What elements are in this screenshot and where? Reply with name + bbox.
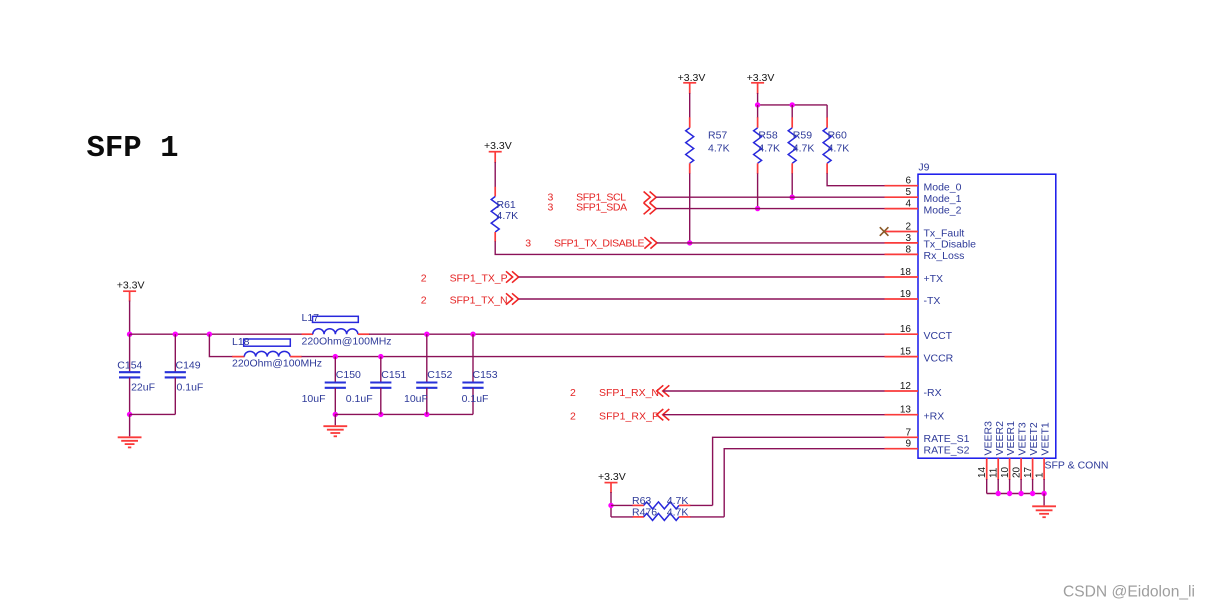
wire R59 to SCL bbox=[791, 173, 793, 197]
junction at R59 top bbox=[790, 102, 795, 107]
svg-text:1: 1 bbox=[1034, 472, 1045, 478]
svg-text:L17: L17 bbox=[302, 312, 320, 324]
net label SFP1_RX_N bbox=[570, 387, 659, 399]
resistor R61 bbox=[491, 187, 518, 242]
pin 5 Mode_1 bbox=[885, 187, 962, 205]
ground G3 under connector bbox=[1032, 494, 1056, 518]
net label SFP1_SDA bbox=[548, 202, 628, 214]
svg-text:Mode_1: Mode_1 bbox=[924, 193, 962, 205]
pin 13 +RX bbox=[885, 405, 945, 423]
svg-text:3: 3 bbox=[905, 233, 911, 244]
pin 17 VEET2 (bottom) bbox=[1023, 422, 1040, 493]
pin 18 +TX bbox=[885, 267, 944, 285]
junction bottom bus 4 bbox=[1030, 491, 1035, 496]
svg-text:R60: R60 bbox=[828, 130, 847, 142]
capacitor C150 bbox=[302, 357, 361, 415]
svg-text:C149: C149 bbox=[176, 360, 201, 372]
pin 9 RATE_S2 bbox=[885, 439, 970, 457]
svg-text:6: 6 bbox=[905, 176, 911, 187]
pin 10 VEER1 (bottom) bbox=[1000, 421, 1017, 494]
svg-text:Mode_0: Mode_0 bbox=[924, 182, 962, 194]
wire R61 to pin 8 Rx_Loss bbox=[495, 241, 884, 254]
wire bottom pin bus bbox=[987, 493, 1044, 495]
port arrow SFP1_TX_DISABLE bbox=[644, 237, 657, 248]
svg-text:10uF: 10uF bbox=[404, 393, 428, 405]
net label SFP1_RX_P bbox=[570, 411, 659, 423]
svg-text:0.1uF: 0.1uF bbox=[177, 382, 204, 394]
svg-text:15: 15 bbox=[900, 347, 912, 358]
svg-text:+TX: +TX bbox=[924, 273, 944, 285]
svg-text:3: 3 bbox=[548, 202, 554, 214]
wire P1 to R57 bbox=[689, 93, 691, 118]
svg-text:C150: C150 bbox=[336, 369, 361, 381]
svg-text:VEER2: VEER2 bbox=[994, 421, 1006, 456]
capacitor C152 bbox=[404, 334, 453, 414]
wire to R63 bbox=[611, 504, 633, 506]
svg-text:11: 11 bbox=[988, 467, 999, 478]
svg-text:C151: C151 bbox=[381, 369, 406, 381]
svg-text:22uF: 22uF bbox=[131, 382, 155, 394]
svg-text:20: 20 bbox=[1011, 466, 1022, 478]
net label SFP1_SCL bbox=[548, 191, 627, 203]
resistor R57 bbox=[686, 117, 730, 174]
wire TX_P bbox=[519, 276, 885, 278]
port arrow SFP1_RX_N (left) bbox=[657, 385, 670, 396]
junction bottom bus 2 bbox=[1007, 491, 1012, 496]
wire bus top rail to R60 bbox=[758, 104, 828, 106]
svg-text:10uF: 10uF bbox=[302, 393, 326, 405]
junction C152 top bbox=[424, 332, 429, 337]
svg-text:3: 3 bbox=[525, 237, 531, 249]
svg-text:4.7K: 4.7K bbox=[828, 143, 850, 155]
svg-text:VEET3: VEET3 bbox=[1017, 422, 1029, 455]
svg-text:+3.3V: +3.3V bbox=[484, 140, 512, 152]
power +3.3V P5 (left rail) bbox=[117, 280, 145, 302]
svg-text:4.7K: 4.7K bbox=[708, 143, 730, 155]
ground G2 under C150 bbox=[323, 414, 347, 436]
svg-text:9: 9 bbox=[905, 439, 911, 450]
svg-text:18: 18 bbox=[900, 267, 912, 278]
svg-text:L18: L18 bbox=[232, 336, 250, 348]
svg-text:RATE_S1: RATE_S1 bbox=[924, 433, 970, 445]
resistor R59 bbox=[788, 117, 814, 174]
svg-text:17: 17 bbox=[1023, 466, 1034, 478]
junction C152 bottom bbox=[424, 412, 429, 417]
svg-text:16: 16 bbox=[900, 324, 912, 335]
junction at R58 top bbox=[755, 102, 760, 107]
junction R57/Tx_Disable bbox=[687, 240, 692, 245]
svg-text:220Ohm@100MHz: 220Ohm@100MHz bbox=[302, 336, 392, 348]
junction C153 top bbox=[470, 332, 475, 337]
svg-text:C152: C152 bbox=[427, 369, 452, 381]
pin 3 Tx_Disable bbox=[885, 233, 977, 251]
capacitor C151 bbox=[346, 357, 407, 415]
svg-text:14: 14 bbox=[977, 466, 988, 478]
pin 6 Mode_0 bbox=[885, 176, 962, 194]
svg-text:8: 8 bbox=[905, 244, 911, 255]
pin 14 VEER3 (bottom) bbox=[977, 421, 994, 494]
capacitor C149 bbox=[165, 334, 204, 414]
wire L18 branch down bbox=[209, 334, 232, 356]
capacitor C153 bbox=[462, 334, 498, 414]
wire P5 down to rail bbox=[129, 301, 131, 335]
power +3.3V P2 (above R58/R59/R60) bbox=[747, 72, 775, 94]
svg-text:2: 2 bbox=[905, 222, 911, 233]
svg-text:0.1uF: 0.1uF bbox=[346, 393, 373, 405]
pin 16 VCCT bbox=[885, 324, 953, 342]
wire R59 column upper bbox=[791, 105, 793, 118]
junction bottom bus 5 bbox=[1041, 491, 1046, 496]
pin 2 Tx_Fault with no-connect X bbox=[880, 222, 965, 240]
svg-text:R57: R57 bbox=[708, 130, 727, 142]
wire TX_N bbox=[519, 298, 885, 300]
junction L18 branch bbox=[207, 332, 212, 337]
wire VCCT rail left segment bbox=[130, 333, 303, 335]
svg-text:VEET1: VEET1 bbox=[1040, 422, 1052, 455]
svg-text:0.1uF: 0.1uF bbox=[462, 393, 489, 405]
svg-text:2: 2 bbox=[570, 411, 576, 423]
svg-text:R59: R59 bbox=[793, 130, 812, 142]
capacitor C154 bbox=[117, 334, 155, 414]
junction bottom bus 1 bbox=[996, 491, 1001, 496]
junction P4/R63 bbox=[608, 503, 613, 508]
svg-text:VCCR: VCCR bbox=[924, 352, 954, 364]
net label SFP1_TX_DISABLE bbox=[525, 237, 644, 249]
svg-text:R63: R63 bbox=[632, 495, 651, 507]
svg-text:19: 19 bbox=[900, 289, 912, 300]
resistor R58 bbox=[754, 117, 780, 174]
svg-text:2: 2 bbox=[570, 387, 576, 399]
svg-text:4.7K: 4.7K bbox=[793, 143, 815, 155]
svg-text:2: 2 bbox=[421, 273, 427, 285]
junction R58/SDA bbox=[755, 206, 760, 211]
pin 4 Mode_2 bbox=[885, 199, 962, 217]
wire bottom rail C150-C153 bbox=[335, 413, 473, 415]
power +3.3V P4 (rate resistors) bbox=[598, 471, 626, 493]
svg-text:4: 4 bbox=[905, 199, 911, 210]
pin 12 -RX bbox=[885, 381, 942, 399]
svg-text:+3.3V: +3.3V bbox=[598, 471, 626, 483]
wire R60 column upper bbox=[826, 105, 828, 118]
wire C154-C149 bottom bbox=[130, 413, 176, 415]
svg-text:4.7K: 4.7K bbox=[667, 495, 689, 507]
connector J9 box bbox=[918, 162, 1056, 459]
wire R60 to pin 6 bbox=[827, 173, 884, 185]
svg-text:RATE_S2: RATE_S2 bbox=[924, 445, 970, 457]
svg-text:7: 7 bbox=[905, 427, 911, 438]
pin 15 VCCR bbox=[885, 347, 954, 365]
svg-text:4.7K: 4.7K bbox=[667, 507, 689, 519]
wire SCL bbox=[656, 196, 884, 198]
svg-text:SFP1_TX_N: SFP1_TX_N bbox=[450, 295, 508, 307]
svg-text:C154: C154 bbox=[117, 360, 142, 372]
wire R58 column upper bbox=[757, 105, 759, 118]
svg-text:4.7K: 4.7K bbox=[758, 143, 780, 155]
wire R58 to SDA bbox=[757, 173, 759, 208]
svg-text:SFP1_SDA: SFP1_SDA bbox=[576, 202, 627, 214]
net label SFP1_TX_P bbox=[421, 273, 508, 285]
power +3.3V P1 (above R57) bbox=[678, 72, 706, 94]
svg-text:CSDN @Eidolon_li: CSDN @Eidolon_li bbox=[1063, 584, 1195, 601]
svg-text:SFP1_RX_N: SFP1_RX_N bbox=[599, 387, 659, 399]
power +3.3V P3 (above R61) bbox=[484, 140, 512, 163]
wire to R476 bbox=[611, 516, 633, 518]
svg-text:Tx_Fault: Tx_Fault bbox=[924, 227, 965, 239]
resistor R63 bbox=[632, 495, 691, 509]
pin 8 Rx_Loss bbox=[885, 244, 965, 262]
svg-text:SFP & CONN: SFP & CONN bbox=[1045, 459, 1109, 471]
svg-text:-RX: -RX bbox=[924, 387, 942, 399]
wire R63 to riser bbox=[690, 504, 712, 506]
wire RX_P bbox=[663, 414, 885, 416]
junction bottom bus 3 bbox=[1018, 491, 1023, 496]
svg-text:220Ohm@100MHz: 220Ohm@100MHz bbox=[232, 357, 322, 369]
svg-text:Rx_Loss: Rx_Loss bbox=[924, 250, 965, 262]
port arrow SFP1_TX_P bbox=[506, 271, 519, 282]
port arrow SFP1_TX_N bbox=[506, 293, 519, 304]
ground G1 under C154 bbox=[118, 414, 142, 447]
net label SFP1_TX_N bbox=[421, 295, 508, 307]
svg-text:SFP1_TX_DISABLE: SFP1_TX_DISABLE bbox=[554, 237, 645, 249]
pin 1 VEET1 (bottom) bbox=[1034, 422, 1051, 493]
svg-text:2: 2 bbox=[421, 295, 427, 307]
svg-text:VEET2: VEET2 bbox=[1028, 422, 1040, 455]
junction R59/SCL bbox=[790, 195, 795, 200]
junction C149 top bbox=[173, 332, 178, 337]
svg-text:5: 5 bbox=[905, 187, 911, 198]
pin 20 VEET3 (bottom) bbox=[1011, 422, 1028, 493]
junction C151 bottom bbox=[378, 412, 383, 417]
svg-text:Tx_Disable: Tx_Disable bbox=[924, 239, 977, 251]
wire P3 to R61 bbox=[494, 162, 496, 188]
wire R57 to Tx_Disable net bbox=[689, 173, 691, 243]
pin 7 RATE_S1 bbox=[885, 427, 970, 445]
svg-text:R476: R476 bbox=[632, 507, 657, 519]
svg-text:12: 12 bbox=[900, 381, 912, 392]
svg-text:SFP1_RX_P: SFP1_RX_P bbox=[599, 411, 659, 423]
wire VCCT rail right segment to pin 16 bbox=[369, 333, 885, 335]
junction C150 bottom bbox=[333, 412, 338, 417]
svg-text:R58: R58 bbox=[758, 130, 777, 142]
wire SDA bbox=[656, 208, 884, 210]
port arrow SFP1_SDA bbox=[644, 203, 657, 214]
svg-text:+RX: +RX bbox=[924, 411, 945, 423]
svg-text:SFP1_TX_P: SFP1_TX_P bbox=[450, 273, 508, 285]
wire R476 to riser bbox=[690, 516, 724, 518]
svg-text:VEER1: VEER1 bbox=[1005, 421, 1017, 456]
wire riser RATE_S1 bbox=[713, 437, 885, 505]
svg-text:SFP 1: SFP 1 bbox=[87, 131, 179, 166]
pin 19 -TX bbox=[885, 289, 941, 307]
svg-text:4.7K: 4.7K bbox=[497, 210, 519, 222]
wire RX_N bbox=[663, 390, 885, 392]
wire riser RATE_S2 bbox=[724, 449, 884, 517]
inductor L18 bbox=[232, 336, 322, 369]
junction C150 top bbox=[333, 354, 338, 359]
svg-text:-TX: -TX bbox=[924, 295, 941, 307]
pin 11 VEER2 (bottom) bbox=[988, 421, 1005, 494]
wire TX_DISABLE bbox=[657, 242, 885, 244]
inductor L17 bbox=[302, 312, 392, 347]
port arrow SFP1_SCL bbox=[644, 192, 657, 203]
svg-text:C153: C153 bbox=[473, 369, 498, 381]
svg-text:+3.3V: +3.3V bbox=[117, 280, 145, 292]
svg-text:10: 10 bbox=[1000, 466, 1011, 478]
junction C154 bottom bbox=[127, 412, 132, 417]
port arrow SFP1_RX_P (left) bbox=[657, 409, 670, 420]
svg-text:Mode_2: Mode_2 bbox=[924, 204, 962, 216]
svg-text:VEER3: VEER3 bbox=[982, 421, 994, 456]
resistor R60 bbox=[823, 117, 849, 174]
svg-text:J9: J9 bbox=[918, 162, 929, 174]
resistor R476 bbox=[632, 507, 691, 521]
wire P4 down bbox=[610, 492, 612, 517]
svg-text:VCCT: VCCT bbox=[924, 330, 953, 342]
junction C151 top bbox=[378, 354, 383, 359]
wire P2 down bbox=[757, 93, 759, 105]
svg-text:13: 13 bbox=[900, 405, 912, 416]
junction left rail at x129 bbox=[127, 332, 132, 337]
wire VCCR rail to pin 15 bbox=[302, 356, 885, 358]
